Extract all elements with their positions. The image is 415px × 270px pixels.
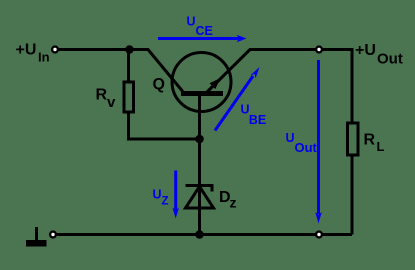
wire emitter diagonal to top-right rail <box>206 50 352 124</box>
voltage arrow UBE <box>215 67 260 131</box>
wire base lead down through zener to bottom rail <box>198 96 201 235</box>
resistor Rv <box>124 82 134 112</box>
svg-text:R: R <box>96 87 108 104</box>
svg-text:CE: CE <box>196 24 213 38</box>
label UCE <box>187 15 213 39</box>
wire left branch junction to Rv <box>127 50 130 83</box>
svg-text:BE: BE <box>249 113 266 127</box>
label Dz <box>219 189 237 211</box>
voltage arrow UOut <box>315 60 322 224</box>
node junction at base <box>195 135 204 144</box>
terminal +Uout <box>316 47 322 53</box>
svg-text:U: U <box>286 131 295 145</box>
label Rv <box>96 87 117 112</box>
ground <box>26 227 47 247</box>
wire bottom rail <box>53 233 352 236</box>
terminal bottom right <box>316 232 322 238</box>
transistor Q1 emitter arrowhead <box>210 78 221 89</box>
svg-text:Q: Q <box>153 76 165 93</box>
svg-text:Out: Out <box>295 140 318 155</box>
svg-text:+U: +U <box>16 42 37 59</box>
node junction at Rv top <box>125 45 134 54</box>
transistor Q1 base bar <box>181 91 223 96</box>
label +Uin <box>16 42 50 65</box>
transistor Q1 circle <box>172 53 231 112</box>
label +Uout <box>355 42 403 68</box>
label UOut blue <box>286 131 318 155</box>
zener diode Dz triangle <box>186 187 214 209</box>
wire right rail below RL <box>351 155 354 235</box>
label UBE <box>241 103 267 128</box>
node junction at zener bottom <box>195 230 204 239</box>
svg-text:Out: Out <box>377 51 403 68</box>
svg-text:Z: Z <box>162 196 169 208</box>
svg-text:U: U <box>187 15 196 29</box>
wire top rail from +Uin terminal to collector diagonal <box>55 50 184 94</box>
svg-text:R: R <box>364 132 376 149</box>
label UZ <box>153 188 169 208</box>
terminal bottom left <box>50 232 56 238</box>
wire Rv bottom to base node <box>129 112 200 139</box>
voltage arrow UCE <box>158 35 247 42</box>
terminal +Uin <box>52 47 58 53</box>
zener diode Dz cathode bar <box>186 186 214 192</box>
svg-text:In: In <box>38 50 50 65</box>
svg-text:z: z <box>230 195 237 211</box>
voltage arrow UZ <box>172 171 179 219</box>
resistor RL <box>348 123 359 155</box>
label RL <box>364 132 385 155</box>
svg-text:+U: +U <box>355 42 376 59</box>
svg-text:v: v <box>107 94 116 111</box>
svg-text:U: U <box>153 188 162 202</box>
svg-text:L: L <box>377 139 385 154</box>
